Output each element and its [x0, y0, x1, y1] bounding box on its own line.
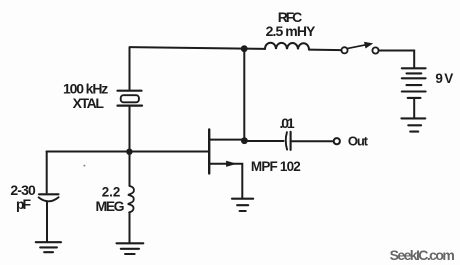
- svg-text:2.5 mHY: 2.5 mHY: [266, 23, 316, 39]
- svg-text:.01: .01: [280, 115, 295, 131]
- svg-text:XTAL: XTAL: [73, 95, 105, 111]
- svg-text:MEG: MEG: [96, 198, 125, 214]
- svg-text:100 kHz: 100 kHz: [63, 80, 108, 96]
- svg-text:9: 9: [435, 71, 443, 86]
- svg-text:SeekIC.com: SeekIC.com: [390, 247, 455, 263]
- svg-text:pF: pF: [16, 196, 32, 212]
- svg-text:MPF 102: MPF 102: [251, 159, 301, 174]
- svg-text:V: V: [444, 71, 453, 86]
- svg-text:Out: Out: [348, 133, 369, 148]
